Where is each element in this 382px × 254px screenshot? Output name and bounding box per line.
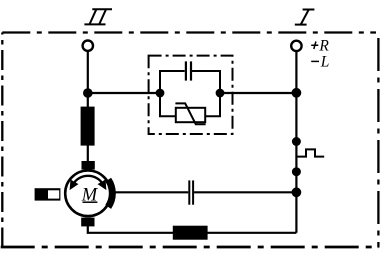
svg-text:R: R xyxy=(318,37,329,54)
suppressor unit enclosure (dash-dot box) xyxy=(149,56,233,134)
terminal II xyxy=(83,41,93,51)
wire: terminal I down right side to bottom xyxy=(295,51,297,233)
varistor R1 xyxy=(175,103,205,124)
node: motor lead junction xyxy=(292,187,302,197)
motor brush top xyxy=(82,161,95,170)
choke L2 xyxy=(173,226,208,240)
node: suppressor left xyxy=(156,89,165,98)
wire: capacitor C2 to right line xyxy=(194,191,296,193)
node: junction left feed xyxy=(83,88,93,98)
wire: suppressor unit to terminal I line xyxy=(220,92,296,94)
motor brush right (third brush crescent) xyxy=(108,180,112,207)
terminal I xyxy=(291,41,301,51)
wire: motor right brush to capacitor C2 xyxy=(112,191,188,193)
node: cam switch lower xyxy=(292,167,301,176)
label -L xyxy=(311,54,329,71)
motor letter M underline xyxy=(83,201,98,203)
capacitor C1 xyxy=(186,61,191,80)
motor brush bottom xyxy=(81,218,94,227)
label II (terminal II designation) xyxy=(84,9,112,24)
wire: left feed to suppressor unit xyxy=(88,92,160,94)
label +R xyxy=(311,37,329,54)
motor M1 body xyxy=(65,171,111,217)
motor drive coupling (left connector) xyxy=(35,188,61,200)
label I (terminal I designation) xyxy=(295,10,315,25)
wire: loop of suppressor network xyxy=(160,71,220,116)
choke L1 xyxy=(81,107,95,146)
node: right feed junction xyxy=(292,88,302,98)
node: suppressor right xyxy=(216,89,225,98)
motor rotation arrow xyxy=(70,176,106,189)
svg-text:L: L xyxy=(320,54,330,71)
wire: choke L1 to motor top brush xyxy=(87,144,89,162)
wire: motor bottom brush down and right along bottom xyxy=(88,226,297,233)
wire: terminal II down to choke L1 xyxy=(87,51,89,107)
node: cam switch upper xyxy=(292,137,301,146)
parking cam switch contact (pulse symbol) xyxy=(296,149,324,156)
capacitor C2 xyxy=(189,180,193,204)
